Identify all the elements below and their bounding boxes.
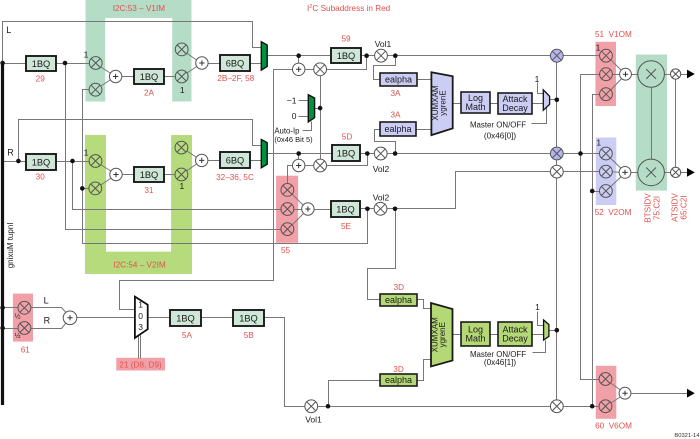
wire: post-1BQ59 tap down-left to error multiplier — [321, 56, 367, 70]
multiplier: Vol2 — [374, 147, 387, 160]
wire: L row from bus to multiplier — [3, 63, 96, 65]
wire: bus tap to input-mux R half multiplier — [3, 328, 25, 330]
summer: V6OM output — [619, 387, 631, 399]
wire: L post-1BQ tap down to node-55 lower multiplier — [66, 64, 282, 230]
wire: summer to 6BQ — [202, 63, 221, 65]
svg-text:(0x46[1]): (0x46[1]) — [484, 358, 517, 367]
wire: ch2 output to arrow — [676, 172, 688, 174]
wire: channel-2 row 1BQ5D through Vol2 to V2OM — [361, 153, 600, 155]
mux: channel-1 bypass select (dark green) — [261, 42, 267, 70]
input muxing bus bar — [1, 62, 4, 406]
junction: mono return to R cross — [80, 186, 85, 191]
wire: mono return tap into R cross multiplier — [83, 188, 96, 190]
svg-text:I2C Subaddress in Red: I2C Subaddress in Red — [307, 4, 391, 13]
wire: 0 constant into auto-Ip mux — [299, 116, 309, 118]
svg-text:I2C:54 – V2IM: I2C:54 – V2IM — [113, 260, 166, 269]
wire: R row from bus to multiplier — [3, 161, 96, 163]
svg-text:30: 30 — [36, 173, 46, 182]
multiplier: V1OM input 2 — [600, 68, 613, 81]
junction: ch1 post-1BQ59 — [364, 53, 369, 58]
junction: 5E post-1BQ — [365, 207, 370, 212]
wire: R multiplier to V2IM summer (diagonal) — [96, 162, 117, 175]
svg-text:3A: 3A — [390, 89, 401, 98]
svg-text:1BQ: 1BQ — [32, 59, 51, 69]
junction: L row at bus — [0, 61, 5, 66]
wire: V2OM summer to VDISTB multiplier — [626, 172, 652, 174]
wire: bus tap to input-mux L half multiplier — [3, 307, 25, 309]
summer: V1OM output — [620, 68, 632, 80]
junction: bus tap L half — [0, 306, 5, 311]
svg-text:2B–2F, 58: 2B–2F, 58 — [217, 74, 254, 83]
svg-text:Master ON/OFF: Master ON/OFF — [470, 120, 526, 129]
wire: ON/OFF mux 2 output to envelope bus — [549, 330, 557, 332]
wire: VDISTB to VDISTA multiplier ch1 — [652, 74, 676, 76]
multiplier: Vol1 bottom path — [305, 400, 318, 413]
svg-text:5A: 5A — [182, 331, 193, 340]
wire: post-Vol2 tap to lower ealpha 3A — [375, 130, 396, 154]
wire: master ON/OFF 2 select elbow — [533, 341, 546, 353]
junction: ch2 pre-1BQ5D — [296, 151, 301, 156]
svg-text:1BQ: 1BQ — [337, 51, 356, 61]
multiplier: VDISTA ch2 (small) — [671, 167, 681, 177]
multiplier: Vol2 on 5E path — [374, 202, 387, 215]
junction: ch1 pre-1BQ59 — [296, 53, 301, 58]
svg-text:3: 3 — [138, 322, 143, 332]
junction: ch1 post-Vol1 — [393, 53, 398, 58]
svg-text:Auto-Ip: Auto-Ip — [274, 126, 300, 135]
svg-text:65:C2I: 65:C2I — [679, 195, 688, 219]
wire: 1BQ 5B down to bottom Vol1 — [264, 318, 312, 407]
wire: post bottom-Vol1 tap to ealpha 3D lower — [329, 381, 380, 407]
summer: V2IM input — [110, 168, 122, 180]
junction: L post-1BQ — [63, 61, 68, 66]
multiplier: V2OM input 1 — [600, 147, 613, 160]
svg-text:0: 0 — [138, 311, 143, 321]
junction: 5E post-Vol2 — [393, 207, 398, 212]
wire: V2OM middle multiplier to summer — [606, 172, 626, 173]
summer: V2OM output — [619, 167, 631, 179]
wire: channel-6 mux select pair — [139, 336, 141, 359]
wire: node-55 middle multiplier to summer — [288, 209, 308, 211]
svg-text:1: 1 — [138, 300, 143, 310]
multiplier: V1OM input 1 — [600, 49, 613, 62]
wire: attack decay to ON/OFF mux — [532, 103, 544, 105]
wire: channel-6 mux output to 1BQ 5A — [148, 317, 171, 319]
multiplier: V1IM L gain — [89, 57, 102, 70]
svg-text:Decay: Decay — [502, 103, 528, 113]
svg-text:ealpha: ealpha — [385, 295, 412, 305]
svg-text:1: 1 — [596, 42, 601, 52]
svg-text:Vol2: Vol2 — [373, 193, 390, 203]
wire: node-55 summer to 1BQ 5E — [308, 209, 332, 211]
wire: 1BQ 5A to 1BQ 5B — [202, 317, 233, 319]
multiplier: V1IM L cross gain — [89, 83, 102, 96]
junction: R post-1BQ — [70, 159, 75, 164]
svg-text:L: L — [6, 25, 11, 35]
svg-text:1: 1 — [180, 85, 185, 95]
wire: ealpha 3D upper to energy maxmux 2 — [417, 300, 432, 309]
mux: master ON/OFF ch6 (green) — [544, 320, 549, 340]
summer: V1IM input — [109, 70, 121, 82]
wire: L input bus riser and L bypass to channel-1 mux — [3, 22, 262, 64]
node 61 input-mux region (pink band) — [13, 294, 33, 342]
energy maxmux block ch1/2 — [431, 72, 452, 135]
wire: channel-2 mux output row to 1BQ 5D — [268, 153, 333, 155]
summer: ch2 error — [293, 159, 305, 171]
junction: bus tap R half — [0, 326, 5, 331]
wire: V6OM summer to output arrow — [626, 393, 688, 395]
wire: channel-1 mux output row to 1BQ 59 — [268, 55, 332, 57]
wire: -1 constant into auto-Ip mux — [299, 100, 309, 102]
wire: R cross multiplier to V2IM summer (diagonal) — [96, 175, 117, 189]
wire: ON/OFF mux output to envelope bus — [550, 99, 557, 101]
ealpha block 3D upper — [380, 294, 417, 306]
filter 1BQ 31 — [134, 167, 164, 182]
junction: beep bus at bottom row — [590, 404, 595, 409]
wire: R half multiplier to input summer — [25, 318, 71, 329]
svg-text:XUMXAM: XUMXAM — [431, 317, 440, 352]
wire: V1IM summer to 1BQ 2A — [116, 76, 135, 78]
summer: V1IM output — [196, 57, 208, 69]
multiplier: node-55 bottom — [281, 223, 294, 236]
svg-text:Vol1: Vol1 — [305, 414, 322, 424]
junction: ch2 post-Vol2 — [393, 151, 398, 156]
attack decay block ch1/2 — [498, 93, 532, 114]
multiplier: 5E path envelope — [550, 165, 563, 178]
subaddress 21 (D8,D9) label background (pink) — [116, 358, 165, 371]
multiplier: VDISTB ch1 (large) — [638, 61, 665, 88]
svg-text:61: 61 — [21, 346, 31, 355]
svg-text:1BQ: 1BQ — [140, 72, 159, 82]
svg-text:1BQ: 1BQ — [32, 157, 51, 167]
wire: post-Vol2' tap down to ealpha 3D — [368, 209, 396, 300]
svg-text:Decay: Decay — [502, 333, 528, 343]
multiplier: V2OM input 2 — [600, 165, 613, 178]
filter 1BQ (I2C:29) — [26, 56, 56, 71]
multiplier: V2OM input 3 — [600, 185, 613, 198]
svg-text:1: 1 — [180, 181, 185, 191]
filter 1BQ 2A — [134, 69, 164, 84]
attack decay block ch6 — [498, 322, 532, 346]
multiplier: input mux L half — [18, 301, 31, 314]
svg-text:1BQ: 1BQ — [336, 204, 355, 214]
filter 1BQ 5D — [332, 145, 360, 161]
wire: VDISTB multiplier link vertical — [651, 75, 653, 173]
svg-text:ealpha: ealpha — [385, 375, 412, 385]
wire: V1OM top multiplier to summer (diagonal) — [607, 56, 626, 75]
svg-text:1: 1 — [84, 50, 89, 60]
wire: V1IM upper output multiplier to summer (diagonal) — [182, 50, 202, 64]
filter 6BQ (32-36,5C) — [220, 152, 250, 168]
wire: R input riser and R bypass to channel-2 mux — [19, 120, 262, 162]
summer: ch1 error — [293, 63, 305, 75]
svg-text:L: L — [44, 296, 49, 306]
junction: Vol2 bus tap — [578, 151, 583, 156]
svg-text:1: 1 — [84, 148, 89, 158]
svg-text:BTSIDV: BTSIDV — [644, 193, 653, 223]
svg-text:3D: 3D — [393, 365, 404, 374]
wire: energy maxmux 2 to log math 2 — [453, 334, 461, 336]
wire: master ON/OFF select elbow — [532, 108, 547, 124]
wire: VDISTA multiplier link vertical — [675, 75, 677, 173]
wire: ealpha 3A lower to energy maxmux — [417, 129, 432, 131]
junction: ON/OFF mux 2 output — [555, 328, 560, 333]
wire: V2IM upper output multiplier to summer (diagonal) — [182, 148, 202, 161]
svg-text:5D: 5D — [342, 133, 353, 142]
wire: ealpha 3D lower to energy maxmux 2 — [417, 360, 432, 381]
node 52 V2OM region (lavender band) — [596, 138, 617, 206]
wire: node-55 bottom multiplier to summer (diagonal) — [288, 210, 308, 230]
wire: beep bus tap into V2OM bottom multiplier — [593, 191, 600, 193]
svg-text:60 V6OM: 60 V6OM — [595, 422, 632, 431]
wire: ch1 error multiplier to error summer — [299, 69, 321, 71]
wire: V2IM summer to 1BQ 31 — [117, 174, 135, 176]
svg-text:3D: 3D — [394, 283, 405, 292]
svg-text:52 V2OM: 52 V2OM — [595, 208, 632, 217]
svg-text:32–36, 5C: 32–36, 5C — [216, 173, 254, 182]
svg-text:29: 29 — [36, 75, 46, 84]
multiplier: V2IM R cross gain — [89, 182, 102, 195]
filter 1BQ 5B — [233, 310, 264, 326]
energy maxmux block ch6 — [431, 303, 453, 367]
ealpha block 3A upper — [380, 73, 417, 86]
wire: L multiplier to V1IM summer (diagonal) — [96, 64, 116, 77]
svg-text:0: 0 — [292, 111, 297, 121]
svg-text:ealpha: ealpha — [384, 124, 411, 134]
wire: V6OM top multiplier to summer (diagonal) — [606, 380, 626, 394]
wire: ealpha 3A to energy maxmux — [417, 79, 432, 81]
svg-text:Vol1: Vol1 — [375, 39, 392, 49]
svg-text:6BQ: 6BQ — [226, 155, 245, 165]
wire: 1BQ 2A to output multiplier — [165, 76, 182, 78]
filter 1BQ 5E — [331, 201, 360, 217]
svg-text:1BQ: 1BQ — [140, 170, 159, 180]
svg-text:B0321-14: B0321-14 — [674, 433, 700, 439]
multiplier: ch1 ON/OFF envelope (blue) — [550, 49, 563, 62]
node 55 mixer region (pink band) — [276, 176, 298, 243]
wire: envelope bus vertical — [556, 56, 558, 407]
svg-text:(0x46[0]): (0x46[0]) — [484, 132, 517, 141]
svg-text:75:C2I: 75:C2I — [652, 196, 661, 220]
wire: V1OM middle multiplier to summer — [607, 74, 626, 76]
svg-text:Math: Math — [465, 333, 485, 343]
summer: input mux mono — [63, 311, 77, 325]
junction: ON/OFF mux output — [555, 98, 560, 103]
junction: ch2 post-1BQ5D — [365, 151, 370, 156]
mux: channel-2 bypass select (dark green) — [261, 140, 267, 168]
ealpha block 3D lower — [380, 374, 417, 386]
wire: attack decay 2 to ON/OFF mux 2 — [533, 334, 544, 336]
svg-text:55: 55 — [281, 246, 291, 255]
wire: 2A output multiplier to summer (diagonal) — [182, 64, 202, 77]
svg-text:ealpha: ealpha — [385, 75, 412, 85]
svg-text:gnixuM tupnI: gnixuM tupnI — [6, 222, 15, 268]
svg-text:XUMXAM: XUMXAM — [431, 85, 440, 120]
multiplier: ch1 error (auto-Ip) — [314, 63, 327, 76]
filter 1BQ (I2C:59) — [331, 48, 361, 63]
svg-text:1BQ: 1BQ — [337, 148, 356, 158]
multiplier: bottom path envelope — [550, 400, 563, 413]
wire: energy maxmux to log math — [453, 103, 461, 105]
multiplier: V2IM 31 output gain — [175, 168, 188, 181]
wire: post-1BQ5D tap down-left to error multiplier — [321, 154, 368, 166]
multiplier: V6OM input 2 — [599, 400, 612, 413]
wire: auto-Ip constant bus between error multipliers — [320, 70, 322, 166]
svg-text:6BQ: 6BQ — [226, 58, 245, 68]
svg-text:Vol2: Vol2 — [373, 164, 390, 174]
multiplier: VDISTB ch2 (large) — [638, 159, 665, 186]
mux: channel-6 input select 1/0/3 — [135, 297, 148, 338]
wire: V1OM bottom multiplier to summer (diagonal) — [607, 75, 626, 95]
wire: pre-1BQ5D tap down to error summer — [298, 154, 300, 166]
wire: 6BQ to channel-1 mux — [251, 63, 262, 65]
output arrow ch6 — [687, 389, 695, 398]
multiplier: VDISTA ch1 (small) — [671, 69, 681, 79]
wire: summer to 6BQ R — [202, 160, 221, 162]
wire: auto-Ip mux output — [315, 108, 321, 110]
multiplier: V1IM upper output gain — [175, 43, 188, 56]
multiplier: V1IM 2A output gain — [175, 70, 188, 83]
junction: R bypass tap — [16, 159, 21, 164]
svg-text:ATSIDV: ATSIDV — [671, 192, 680, 222]
svg-text:5B: 5B — [244, 331, 255, 340]
svg-text:−1: −1 — [287, 95, 297, 105]
VDIST output region (mint band right) — [636, 55, 667, 191]
wire: ch1 error summer to channel-6 mux input 1 — [120, 70, 299, 310]
wire: VDISTB to VDISTA multiplier ch2 — [652, 172, 676, 174]
summer: V2IM output — [196, 154, 208, 166]
svg-text:3A: 3A — [390, 111, 401, 120]
wire: bottom row Vol1 to V6OM — [312, 406, 600, 408]
svg-text:1: 1 — [535, 302, 540, 312]
wire: V6OM bottom multiplier to summer (diagonal) — [606, 394, 626, 407]
svg-text:21 (D8, D9): 21 (D8, D9) — [119, 360, 162, 369]
svg-text:1: 1 — [596, 138, 601, 148]
junction: beep bus tap V2OM — [590, 189, 595, 194]
wire: beep bus to V1OM and V2OM bottom multipliers — [593, 95, 600, 407]
svg-text:59: 59 — [341, 35, 351, 44]
wire: post-Vol1 tap to ealpha 3A — [374, 56, 396, 80]
svg-text:Math: Math — [465, 102, 485, 112]
svg-text:51 V1OM: 51 V1OM — [595, 30, 632, 39]
multiplier: V2IM R gain — [89, 155, 102, 168]
wire: V2OM top multiplier to summer (diagonal) — [606, 154, 626, 173]
wire: log math to attack decay — [491, 103, 498, 105]
log math block ch6 — [461, 322, 490, 346]
ealpha block 3A lower — [380, 122, 416, 136]
wire: 31 output multiplier to summer (diagonal) — [182, 161, 202, 175]
wire: 6BQ R to channel-2 mux — [251, 160, 262, 162]
wire: 5E mono return feed to both cross multipliers — [83, 90, 368, 244]
multiplier: node-55 top — [281, 184, 294, 197]
wire: R post-1BQ tap down to node-55 middle multiplier — [73, 162, 282, 210]
multiplier: node-55 middle — [281, 203, 294, 216]
filter 6BQ (2B-2F,58) — [220, 55, 250, 71]
svg-text:½: ½ — [15, 312, 21, 320]
wire: constant 1 into ON/OFF mux — [538, 83, 544, 94]
mux: master ON/OFF ch1/2 (lavender) — [543, 90, 549, 111]
svg-text:R: R — [7, 147, 14, 157]
wire: log math 2 to attack decay 2 — [491, 334, 498, 336]
svg-text:I2C:53 – V1IM: I2C:53 – V1IM — [113, 4, 166, 13]
multiplier: V1OM input 3 — [600, 88, 613, 101]
node 60 V6OM region (pink band) — [596, 366, 617, 419]
mux: auto-Ip -1/0 select (dark green) — [308, 95, 314, 122]
output arrow ch2 — [687, 168, 695, 177]
wire: L cross multiplier to V1IM summer (diagonal) — [96, 77, 116, 90]
svg-text:(0x46 Bit 5): (0x46 Bit 5) — [274, 135, 313, 144]
output arrow ch1 — [687, 70, 695, 79]
filter 1BQ 5A — [170, 310, 201, 326]
wire: auto-Ip select elbow — [303, 122, 312, 131]
wire: L half multiplier to input summer — [25, 308, 71, 318]
wire: 1BQ 31 to output multiplier — [165, 174, 182, 176]
I2C:54 V2IM coefficient region (yellow-green band, U shape) — [85, 135, 192, 274]
wire: V1OM summer to VDISTB multiplier — [626, 74, 652, 76]
multiplier: ch2 error (auto-Ip) — [314, 159, 327, 172]
wire: channel-1 row 1BQ59 through Vol1 to V1OM — [361, 55, 600, 57]
junction: auto-Ip mux output — [318, 106, 323, 111]
summer: node-55 mix — [302, 203, 314, 215]
svg-text:1: 1 — [535, 74, 540, 84]
log math block ch1/2 — [461, 92, 490, 113]
svg-text:5E: 5E — [341, 222, 352, 231]
multiplier: V2IM upper output gain — [175, 141, 188, 154]
svg-text:R: R — [44, 316, 51, 326]
wire: V2OM bottom multiplier to summer (diagonal) — [606, 173, 626, 192]
filter 1BQ (I2C:30) — [26, 154, 56, 170]
svg-text:½: ½ — [15, 332, 21, 340]
svg-text:2A: 2A — [144, 89, 155, 98]
multiplier: ch2 ON/OFF envelope (blue) — [550, 147, 563, 160]
node 51 V1OM region (pink band) — [595, 42, 616, 106]
wire: 5E row through Vol2 up to V2OM middle multiplier — [361, 172, 600, 209]
wire: node-55 top multiplier to summer (diagonal) — [288, 190, 308, 210]
multiplier: Vol1 — [375, 49, 388, 62]
wire: constant 1 into ON/OFF mux 2 — [538, 312, 544, 326]
svg-text:1BQ: 1BQ — [239, 313, 258, 323]
junction: bottom post-Vol1 — [326, 404, 331, 409]
wire: pre-1BQ59 tap down to error summer — [298, 56, 300, 70]
svg-text:1BQ: 1BQ — [176, 313, 195, 323]
wire: ch2 error summer down to node-55 top multiplier — [288, 166, 299, 190]
svg-text:31: 31 — [144, 186, 154, 195]
wire: Vol2 tap bus to V1OM mid and V6OM top multipliers — [581, 75, 600, 380]
wire: ch2 error multiplier to error summer — [299, 165, 321, 167]
wire: input summer to channel-6 mux — [71, 317, 135, 319]
multiplier: V6OM input 1 — [599, 373, 612, 386]
I2C:53 V1IM coefficient region (mint band, pi shape) — [86, 0, 192, 102]
multiplier: input mux R half — [18, 322, 31, 335]
wire: ch1 output to arrow — [676, 74, 688, 76]
